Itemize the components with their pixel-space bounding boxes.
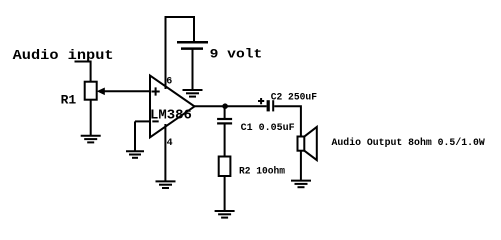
svg-text:4: 4	[167, 138, 173, 149]
wire inverting input to ground	[135, 120, 150, 122]
node output junction	[222, 103, 228, 109]
wire R1 bottom to ground	[90, 100, 92, 135]
wire C1 to R2	[224, 125, 226, 157]
wire wiper to op-amp + input	[104, 90, 150, 92]
resistor R1 (potentiometer body)	[85, 82, 97, 100]
wire input stub to R1 top	[75, 62, 91, 82]
potentiometer wiper arrow	[97, 88, 105, 96]
plus sign of C2 polarity	[258, 98, 264, 104]
speaker LS1 driver rectangle	[298, 137, 305, 151]
wire op-amp output to C2	[195, 105, 267, 107]
wire R2 to ground	[224, 176, 226, 211]
svg-text:9 volt: 9 volt	[210, 46, 263, 61]
capacitor C2 250uF electrolytic	[267, 100, 275, 111]
speaker cone	[304, 127, 317, 160]
wire junction down to C1	[224, 106, 226, 118]
ground at inverting input	[126, 151, 144, 158]
wire C2 to speaker	[274, 106, 301, 136]
pin 4 wire down from op-amp	[164, 124, 166, 181]
ground below battery	[183, 90, 203, 97]
svg-text:LM386: LM386	[150, 107, 192, 123]
svg-text:6: 6	[166, 77, 172, 88]
ground below speaker	[291, 181, 311, 188]
wire battery minus to ground	[192, 49, 194, 90]
svg-text:Audio Output 8ohm 0.5/1.0W: Audio Output 8ohm 0.5/1.0W	[332, 137, 485, 149]
svg-text:C2 250uF: C2 250uF	[271, 93, 317, 104]
svg-text:R2 10ohm: R2 10ohm	[239, 165, 285, 177]
wire top run to battery	[165, 17, 195, 42]
ground below R2	[215, 211, 235, 218]
svg-text:C1 0.05uF: C1 0.05uF	[241, 123, 295, 134]
minus sign inverting input	[152, 120, 158, 122]
pin 6 wire up from op-amp	[165, 17, 167, 89]
wire speaker to ground	[300, 151, 302, 180]
op-amp U1 LM386 triangle	[150, 76, 195, 138]
plus sign non-inverting input	[152, 87, 160, 95]
ground at pin 4	[156, 181, 176, 188]
svg-text:Audio input: Audio input	[13, 48, 114, 64]
battery B1 9 volt	[177, 42, 208, 48]
svg-text:R1: R1	[61, 92, 77, 107]
capacitor C1 0.05uF	[217, 119, 232, 123]
resistor R2	[219, 157, 231, 177]
ground below R1	[81, 136, 101, 143]
